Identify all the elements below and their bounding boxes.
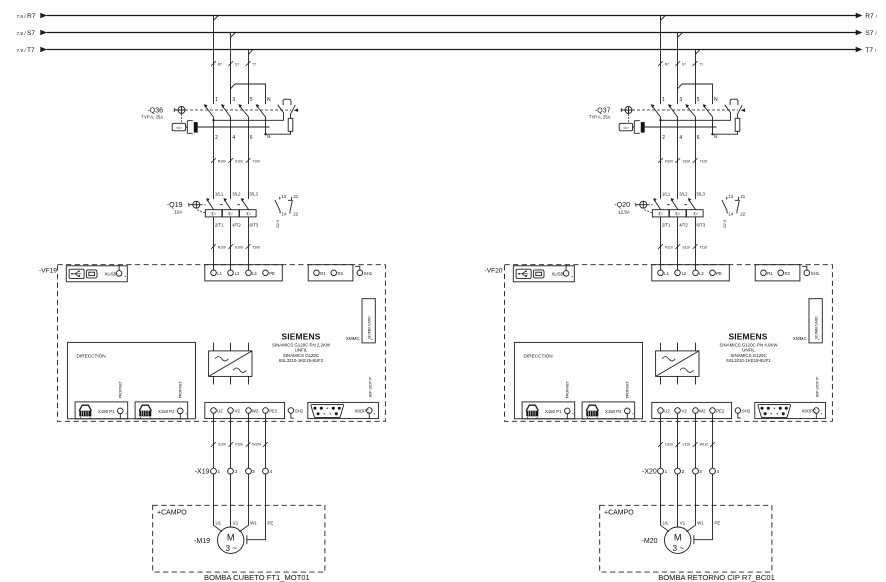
svg-text:W109: W109 [252, 442, 261, 446]
svg-text:-Q37: -Q37 [595, 107, 611, 114]
svg-text:R109: R109 [218, 246, 226, 250]
svg-text:-VF20: -VF20 [485, 267, 503, 274]
svg-text:-M19: -M19 [194, 538, 210, 545]
svg-text:T100: T100 [252, 159, 260, 163]
svg-text:6SL3210-1KE18-8UF1: 6SL3210-1KE18-8UF1 [726, 358, 771, 363]
svg-text:U109: U109 [218, 442, 226, 446]
svg-text:-Q20: -Q20 [614, 202, 630, 209]
svg-text:-X19: -X19 [195, 469, 210, 476]
svg-text:S100: S100 [235, 159, 243, 163]
svg-text:R110: R110 [665, 246, 673, 250]
svg-text:SINAMICS G120C: SINAMICS G120C [730, 353, 766, 358]
svg-text:T7 /: T7 / [865, 47, 877, 54]
svg-text:12,5A: 12,5A [618, 209, 631, 214]
svg-text:SINAMICS G120C PN 2,2KW: SINAMICS G120C PN 2,2KW [272, 342, 331, 347]
svg-text:U110: U110 [665, 442, 673, 446]
svg-text:S110: S110 [683, 246, 691, 250]
svg-text:S7 /: S7 / [865, 30, 877, 37]
svg-text:-M20: -M20 [642, 538, 658, 545]
svg-text:SINAMICS G120C: SINAMICS G120C [283, 353, 319, 358]
svg-text:S109: S109 [235, 246, 243, 250]
svg-text:-X20: -X20 [642, 469, 657, 476]
svg-text:V110: V110 [683, 442, 691, 446]
svg-text:V109: V109 [235, 442, 243, 446]
svg-text:UNFIL: UNFIL [295, 348, 308, 353]
svg-text:UNFIL: UNFIL [742, 348, 755, 353]
svg-text:T110: T110 [700, 246, 707, 250]
svg-text:7.9 / R7: 7.9 / R7 [17, 13, 36, 20]
svg-text:R100: R100 [218, 159, 226, 163]
svg-text:TYP A, 25A: TYP A, 25A [589, 115, 611, 120]
svg-text:10A: 10A [174, 209, 183, 214]
svg-text:R100: R100 [665, 159, 673, 163]
svg-text:S100: S100 [683, 159, 691, 163]
svg-text:7.9 / T7: 7.9 / T7 [17, 47, 35, 54]
svg-text:7.9 / S7: 7.9 / S7 [17, 30, 36, 37]
svg-text:T100: T100 [700, 159, 708, 163]
svg-text:6SL3210-1KE15-8UF2: 6SL3210-1KE15-8UF2 [279, 358, 324, 363]
svg-text:TYP A, 25A: TYP A, 25A [141, 115, 163, 120]
svg-text:BOMBA CUBETO FT1_MOT01: BOMBA CUBETO FT1_MOT01 [204, 573, 310, 582]
svg-text:-Q36: -Q36 [147, 107, 163, 114]
svg-text:W110: W110 [700, 442, 709, 446]
svg-text:SINAMICS G120C PN 4,0KW: SINAMICS G120C PN 4,0KW [719, 342, 778, 347]
svg-text:-Q19: -Q19 [167, 202, 183, 209]
svg-text:-VF19: -VF19 [39, 267, 57, 274]
svg-text:T109: T109 [252, 246, 260, 250]
svg-text:BOMBA RETORNO CIP R7_BC01: BOMBA RETORNO CIP R7_BC01 [658, 573, 775, 582]
svg-text:R7 /: R7 / [865, 13, 877, 20]
